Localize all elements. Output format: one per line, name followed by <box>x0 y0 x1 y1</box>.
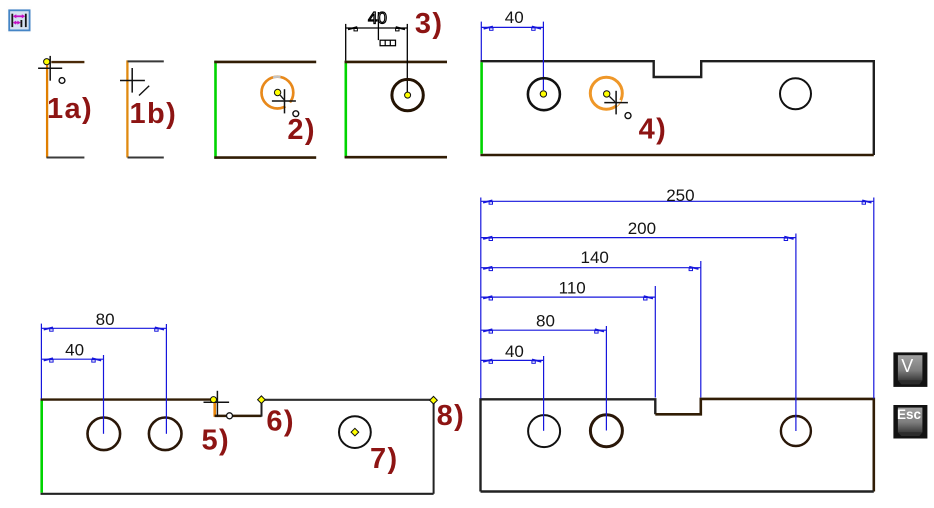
svg-text:7): 7) <box>370 443 399 475</box>
hole circle 9-3 <box>781 416 811 446</box>
highlighted step edge (orange) <box>213 403 216 417</box>
svg-text:40: 40 <box>505 8 524 27</box>
bottom-left part left edge (green) <box>40 401 43 493</box>
yellow endpoint diamond 6 <box>258 396 266 404</box>
snap tail 2 <box>280 95 284 99</box>
keyboard key V <box>893 352 927 387</box>
fragment 1b selected left edge (orange) <box>126 60 128 157</box>
svg-text:1a): 1a) <box>47 93 93 125</box>
svg-text:Esc: Esc <box>897 407 922 422</box>
yellow snap dot 4-1 <box>540 91 546 97</box>
small circle marker 1a <box>59 78 65 84</box>
highlighted hole circle (orange) <box>590 77 622 109</box>
bottom-right part outline left/top segment <box>481 399 656 491</box>
small circle marker 2 <box>293 111 299 117</box>
yellow center diamond 7 <box>351 428 359 436</box>
hole circle 4-1 <box>528 78 560 110</box>
yellow endpoint square 5 <box>211 397 217 403</box>
crosshair cursor 4 <box>604 91 628 115</box>
svg-text:140: 140 <box>581 248 609 267</box>
bottom-right part bottom edge <box>481 490 874 492</box>
pick slash mark 1b <box>139 86 149 96</box>
dimension stack 40..250 (blue) <box>481 198 874 432</box>
svg-text:2): 2) <box>287 114 316 146</box>
small circle marker 4 <box>625 113 631 119</box>
fragment 3 bottom edge <box>345 156 447 159</box>
svg-text:8): 8) <box>437 400 466 432</box>
svg-text:4): 4) <box>639 113 668 145</box>
highlighted hole circle (orange) <box>262 77 294 109</box>
yellow snap dot 1a <box>44 59 50 65</box>
yellow snap dot 4-2 <box>604 91 610 97</box>
bottom-left part right edge <box>433 400 435 494</box>
hole circle 5-1 <box>88 418 121 451</box>
hole circle 9-1 <box>528 415 560 447</box>
yellow endpoint diamond 8 <box>430 396 438 404</box>
snap tail 4 <box>610 97 616 102</box>
hole circle 7 <box>339 416 371 448</box>
crosshair cursor 2 <box>272 89 296 113</box>
svg-text:5): 5) <box>202 425 231 457</box>
svg-text:110: 110 <box>559 278 586 297</box>
svg-text:V: V <box>901 356 913 376</box>
svg-text:250: 250 <box>666 186 694 205</box>
crosshair cursor 1b <box>120 68 145 93</box>
fragment 1b top edge <box>128 60 164 62</box>
bottom-left part bottom edge <box>41 493 434 495</box>
small circle marker 6 <box>227 413 233 419</box>
part 4 outline with notch <box>480 61 873 155</box>
fragment 3 top edge <box>345 61 447 64</box>
hole circle 9-2 <box>590 415 622 447</box>
svg-text:3): 3) <box>415 8 444 40</box>
step right edge <box>261 400 263 417</box>
svg-text:40: 40 <box>65 340 84 359</box>
bottom-left part top edge left segment <box>41 398 213 400</box>
svg-text:1b): 1b) <box>130 98 178 130</box>
fragment 1a selected left edge (orange) <box>46 65 48 158</box>
yellow snap dot 3 <box>405 92 411 98</box>
toolbar icon: horizontal dimension tool <box>6 7 32 33</box>
crosshair cursor 1a <box>38 56 62 81</box>
fragment 2 bottom edge <box>214 156 316 159</box>
dimension 40 (blue) <box>481 22 543 90</box>
dimensions 40 and 80 (blue) <box>41 324 166 434</box>
svg-text:200: 200 <box>628 219 656 238</box>
value edit box icon <box>380 40 395 46</box>
hole circle 3 <box>392 79 423 110</box>
keyboard key Esc <box>893 405 927 439</box>
part 4 bottom edge <box>480 154 873 157</box>
bottom-right part notch and right segment <box>655 399 874 492</box>
svg-text:6): 6) <box>266 406 295 438</box>
part 4 left edge (green) <box>480 62 483 154</box>
hole circle 4-3 <box>780 78 811 109</box>
step bottom edge <box>215 415 262 418</box>
crosshair cursor 5 <box>204 391 230 417</box>
fragment 2 left edge (green) <box>214 61 217 159</box>
svg-text:40: 40 <box>368 8 387 27</box>
svg-text:80: 80 <box>536 311 555 330</box>
fragment 2 top edge <box>214 61 316 64</box>
pending dimension 40 (black preview) <box>346 12 408 95</box>
fragment 3 left edge (green) <box>344 61 347 158</box>
hole circle 5-2 <box>149 418 182 451</box>
bottom-left part top edge right segment <box>262 399 434 401</box>
fragment 1a bottom edge <box>47 157 85 159</box>
yellow snap dot 2 <box>274 89 280 95</box>
svg-text:80: 80 <box>96 310 115 329</box>
fragment 1a top edge <box>51 61 84 63</box>
svg-text:40: 40 <box>505 342 524 361</box>
fragment 1b bottom edge <box>128 157 164 159</box>
